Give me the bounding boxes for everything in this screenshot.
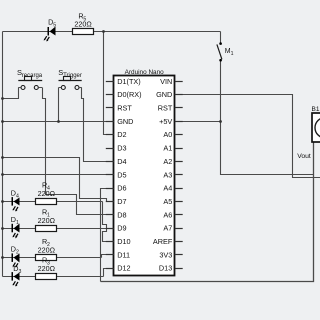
- svg-text:D2: D2: [117, 130, 126, 139]
- wire top rail to D2 pin: [104, 32, 114, 135]
- wire left vertical rail: [2, 32, 4, 277]
- svg-text:Trigger: Trigger: [63, 73, 82, 79]
- LED D4: [11, 188, 20, 211]
- svg-text:D4: D4: [117, 157, 126, 166]
- svg-text:D8: D8: [117, 210, 126, 219]
- svg-text:Vout: Vout: [297, 153, 311, 160]
- node rail / D5 wire junction: [1, 173, 4, 176]
- svg-text:4: 4: [16, 193, 19, 199]
- Arduino Nano pin stubs right: [175, 82, 183, 269]
- svg-text:A0: A0: [163, 130, 172, 139]
- svg-text:D6: D6: [117, 184, 126, 193]
- svg-text:A1: A1: [163, 144, 172, 153]
- svg-text:A6: A6: [163, 210, 172, 219]
- svg-text:220Ω: 220Ω: [38, 216, 56, 225]
- svg-text:RST: RST: [158, 104, 173, 113]
- wire M1 vertical upper: [220, 32, 222, 43]
- node rail / LED D2 row junction: [1, 256, 4, 259]
- resistor R4: [36, 181, 57, 205]
- resistor R2: [36, 237, 57, 261]
- switch M1: [217, 42, 234, 61]
- svg-text:A2: A2: [163, 157, 172, 166]
- resistor R5: [73, 12, 94, 35]
- LED D1: [11, 215, 20, 238]
- LED D3: [12, 264, 22, 287]
- wire rail to D5 pin: [3, 174, 114, 176]
- Arduino Nano pin labels right: [153, 77, 173, 273]
- svg-text:220Ω: 220Ω: [38, 246, 56, 255]
- wire bottom bus to module pin: [101, 143, 314, 282]
- svg-text:A7: A7: [163, 224, 172, 233]
- svg-text:D13: D13: [159, 264, 172, 273]
- wire D4 LED row: [3, 201, 103, 203]
- wire top rail horizontal (LED D5 / R5 net): [3, 31, 221, 33]
- svg-text:220Ω: 220Ω: [74, 20, 92, 29]
- wire M1 vertical lower to h1: [221, 61, 314, 175]
- wire D3 LED row: [3, 276, 104, 278]
- svg-text:AREF: AREF: [153, 237, 173, 246]
- wire D1 LED row to D9 pin: [3, 228, 114, 230]
- resistor R3: [36, 256, 57, 280]
- wire +5V pin to M1 line: [183, 121, 221, 123]
- wire D6 pin down to bottom bus: [101, 189, 114, 282]
- svg-text:220Ω: 220Ω: [38, 264, 56, 273]
- wire S_Trigger right contact to D4 pin: [82, 88, 114, 162]
- svg-text:D7: D7: [117, 197, 126, 206]
- wire rail to S_recarga left contact: [3, 88, 19, 99]
- svg-text:RST: RST: [117, 104, 132, 113]
- wire rail to D7 pin (stepped): [3, 158, 114, 202]
- svg-text:VIN: VIN: [160, 77, 172, 86]
- LED D5 (top): [44, 17, 57, 41]
- svg-text:B1: B1: [312, 106, 320, 113]
- wire S_Trigger left contact to GND line: [58, 88, 60, 122]
- svg-text:A3: A3: [163, 170, 172, 179]
- IC U1 Arduino Nano box: [114, 69, 175, 276]
- svg-text:A4: A4: [163, 184, 172, 193]
- node +5V / M1 line junction: [219, 120, 222, 123]
- switch S_recarga: [17, 68, 43, 89]
- Arduino Nano pin labels left: [117, 77, 141, 273]
- node rail / S_recarga junction: [1, 97, 4, 100]
- svg-text:3V3: 3V3: [159, 250, 172, 259]
- svg-text:D10: D10: [117, 237, 130, 246]
- svg-text:D9: D9: [117, 224, 126, 233]
- node top rail / D2 wire junction: [102, 30, 105, 33]
- wire R3 to D12 pin: [104, 269, 114, 277]
- svg-text:D5: D5: [117, 170, 126, 179]
- wire D2 LED row: [3, 257, 102, 259]
- svg-text:D12: D12: [117, 264, 130, 273]
- svg-text:GND: GND: [156, 90, 172, 99]
- svg-text:220Ω: 220Ω: [38, 189, 56, 198]
- wire S_recarga right contact to D8 pin: [43, 88, 114, 215]
- node rail / LED D4 row junction: [1, 200, 4, 203]
- resistor R1: [36, 207, 57, 231]
- svg-text:GND: GND: [117, 117, 133, 126]
- svg-text:D1(TX): D1(TX): [117, 77, 141, 86]
- svg-text:2: 2: [16, 250, 19, 256]
- node S_Trigger / GND line junction: [57, 120, 60, 123]
- svg-text:D0(RX): D0(RX): [117, 90, 141, 99]
- svg-text:3: 3: [19, 269, 22, 275]
- svg-text:+5V: +5V: [159, 117, 172, 126]
- svg-text:D11: D11: [117, 250, 130, 259]
- wire GND pin line: [3, 121, 114, 123]
- svg-text:A5: A5: [163, 197, 172, 206]
- LED D2: [11, 245, 20, 268]
- node rail / GND line junction: [1, 120, 4, 123]
- svg-text:5: 5: [53, 22, 56, 28]
- svg-text:Arduino Nano: Arduino Nano: [125, 69, 165, 76]
- wire right GND pin to module: [183, 95, 320, 178]
- svg-text:1: 1: [16, 220, 19, 226]
- motor M module (partially visible, top right): [297, 106, 320, 160]
- Arduino Nano pin stubs left: [106, 82, 114, 269]
- svg-text:1: 1: [231, 51, 234, 57]
- switch S_Trigger: [58, 68, 82, 89]
- node rail / LED D1 row junction: [1, 227, 4, 230]
- wire R4 to D10 pin (with hop jog): [103, 202, 114, 242]
- node rail / D7 wire junction: [1, 156, 4, 159]
- svg-text:D3: D3: [117, 144, 126, 153]
- wire R2 to D11 pin: [102, 255, 114, 258]
